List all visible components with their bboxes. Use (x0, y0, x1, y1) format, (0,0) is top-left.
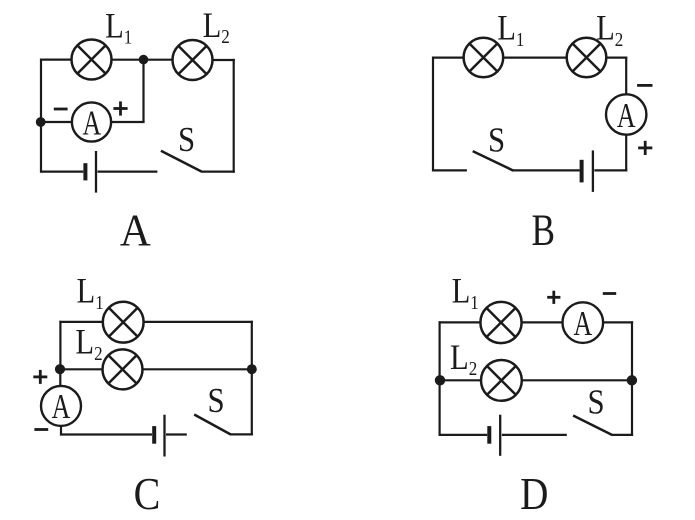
wire D right vertical (631, 321, 633, 436)
svg-text:D: D (520, 470, 548, 520)
wire ammeter - terminal to left node (circuit A) (42, 121, 72, 123)
lamp L2 (circuit B) (567, 38, 607, 78)
switch S blade (circuit B) (473, 151, 514, 171)
svg-text:A: A (120, 207, 151, 256)
plus sign right of ammeter (circuit A) (113, 101, 127, 115)
wire B left vertical (432, 57, 434, 172)
wire L2 to right corner then down to ammeter (circuit B) (606, 56, 627, 58)
wire B top-left horizontal (432, 56, 464, 58)
wire switch to right corner (circuit A) (202, 171, 235, 173)
switch S blade (circuit D) (573, 416, 612, 436)
wire ammeter bottom to bottom rail (circuit C) (60, 426, 62, 435)
switch S blade (circuit A) (161, 151, 202, 172)
wire middle-left from node to L2 (circuit C) (59, 368, 102, 370)
wire A left vertical (40, 59, 42, 173)
battery (circuit D): long thin plate (499, 415, 501, 456)
battery (circuit D): short thick plate (487, 426, 491, 444)
lamp L2 (circuit C) (103, 349, 143, 389)
wire battery to right corner (circuit B) (594, 169, 627, 171)
plus sign below-right of ammeter (circuit B) (638, 141, 652, 155)
wire A right vertical (233, 59, 235, 173)
lamp L1 (circuit D) (480, 302, 521, 343)
ammeter A1 (circuit D) (563, 302, 604, 343)
wire ammeter bottom down to bottom rail (circuit B) (625, 135, 627, 172)
battery (circuit B): short thick plate (580, 160, 584, 183)
lamp L2 (circuit A) (173, 40, 213, 80)
wire L2 to right node (circuit C) (143, 368, 252, 370)
svg-text:B: B (531, 205, 554, 255)
wire B bottom-left to switch (432, 169, 467, 171)
battery (circuit A): short thick plate (83, 163, 87, 180)
wire A bottom-left to battery (40, 171, 83, 173)
wire branch from top node down to ammeter + terminal (circuit A) (142, 60, 144, 122)
battery (circuit B): long thin plate (592, 150, 594, 192)
node junction dot right (circuit D) (627, 375, 637, 385)
svg-text:S: S (178, 121, 195, 159)
ammeter A1 (circuit A) (72, 102, 111, 141)
wire battery to switch (circuit A) (98, 171, 158, 173)
battery (circuit C): long thin plate (163, 415, 165, 457)
wire between L1 and L2 (circuit A) (112, 59, 174, 61)
minus sign above-right of ammeter (circuit D) (603, 292, 616, 295)
plus sign left of node (circuit C) (33, 370, 47, 384)
wire D left vertical (439, 321, 441, 436)
lamp L2 (circuit D) (481, 360, 522, 401)
lamp L1 (circuit B) (464, 38, 504, 78)
wire L2 to right corner (circuit A) (213, 59, 235, 61)
wire C right vertical (251, 321, 253, 436)
plus sign above-left of ammeter (circuit D) (547, 291, 560, 304)
svg-text:A: A (52, 388, 71, 427)
ammeter A1 (circuit B) (606, 94, 646, 134)
wire ammeter to right corner (circuit D) (603, 321, 633, 323)
wire switch to battery (circuit B) (513, 169, 580, 171)
node junction dot right (circuit C) (247, 364, 257, 374)
minus sign left of ammeter (circuit A) (54, 108, 68, 111)
wire D top-left horizontal (439, 321, 481, 323)
svg-text:A: A (82, 104, 101, 143)
lamp L1 (circuit C) (103, 302, 144, 343)
minus sign below-left of ammeter (circuit C) (34, 428, 48, 431)
svg-text:C: C (134, 470, 161, 520)
battery (circuit A): long thin plate (95, 151, 97, 193)
svg-text:A: A (617, 96, 636, 135)
node junction dot left (circuit A) (36, 117, 46, 127)
node junction dot top (circuit A) (139, 55, 149, 65)
wire switch to right corner (circuit D) (612, 434, 634, 436)
lamp L1 (circuit A) (72, 40, 112, 80)
svg-text:S: S (488, 122, 505, 160)
wire battery to switch (circuit C) (166, 433, 187, 435)
wire node down to ammeter (circuit C) (59, 369, 61, 386)
wire A top-left horizontal (40, 58, 72, 60)
battery (circuit C): short thick plate (152, 426, 156, 444)
wire middle-left from left rail to L2 (circuit D) (440, 379, 482, 381)
wire battery to switch (circuit D) (502, 434, 567, 436)
wire C left vertical (top rail to node) (59, 321, 61, 369)
wire D bottom-left to battery (439, 434, 488, 436)
svg-text:S: S (208, 382, 225, 420)
wire L1 to ammeter (circuit D) (522, 321, 563, 323)
wire L1 to right vertical (circuit C) (144, 321, 253, 323)
node junction dot left (circuit C) (55, 364, 65, 374)
ammeter A1 (circuit C) (41, 386, 81, 426)
wire L2 to right rail (circuit D) (522, 379, 632, 381)
svg-text:A: A (573, 304, 592, 343)
wire between L1 and L2 (circuit B) (503, 56, 567, 58)
minus sign above-right of ammeter (circuit B) (637, 84, 652, 87)
wire switch to right corner (circuit C) (230, 433, 253, 435)
switch S blade (circuit C) (194, 415, 230, 435)
node junction dot left (circuit D) (435, 375, 445, 385)
wire C top-left horizontal (59, 321, 103, 323)
svg-text:S: S (588, 384, 605, 422)
